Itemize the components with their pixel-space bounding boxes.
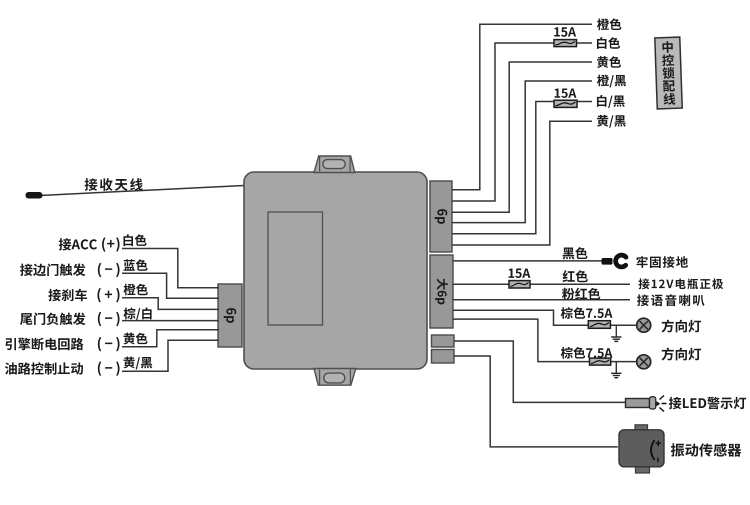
fuse 7.5A F4 <box>588 321 610 329</box>
connector 6p left <box>218 284 242 347</box>
label 大6p connector <box>435 279 448 305</box>
label 白色 <box>597 37 620 49</box>
label 方向灯 2 <box>662 347 702 360</box>
connector 6p right <box>430 181 452 252</box>
label 黄色 <box>597 56 621 68</box>
ground symbol row2 <box>611 362 621 378</box>
wire 白色 top <box>452 43 592 201</box>
wire color 黄/黑 <box>124 357 153 370</box>
turn lamp L2 <box>637 355 651 369</box>
ground symbol row1 <box>611 325 621 341</box>
fuse 7.5A F5 <box>590 358 611 365</box>
connector 大6p <box>430 255 453 328</box>
wire 黄色 top <box>452 62 592 212</box>
label sign (−) row4 <box>98 312 120 327</box>
label 15A fuse1 <box>554 27 576 37</box>
label sign (−) row6 <box>98 361 120 376</box>
wire 黄/黑 top <box>452 121 592 245</box>
wire color 黑色 <box>563 247 588 259</box>
label sign (−) row5 <box>98 337 120 352</box>
label 橙色 <box>597 18 621 30</box>
wire antenna lead <box>40 186 244 196</box>
label 橙/黑 <box>597 75 626 88</box>
label 接语音喇叭 <box>637 294 705 306</box>
label 黄/黑 <box>597 115 626 128</box>
wire color 蓝色 <box>123 259 147 271</box>
label 接收天线 (receiving antenna) <box>85 178 143 191</box>
control unit main body <box>244 172 427 369</box>
label 牢固接地 <box>637 256 688 268</box>
label char 中 <box>662 41 673 53</box>
wire 红色 +12V <box>453 283 630 285</box>
label 6p left connector <box>224 308 237 323</box>
label 接12V电瓶正极 <box>638 278 723 289</box>
wire color 粉红色 <box>562 288 600 300</box>
wire to vibration sensor <box>454 356 618 447</box>
label 振动传感器 <box>671 443 742 457</box>
wire 黄色 to pin5 <box>122 330 219 347</box>
label char 线 <box>663 93 675 105</box>
label 方向灯 1 <box>662 319 702 332</box>
fuse 15A F2 <box>554 100 577 107</box>
wire 棕色 turn lamp 1 <box>453 310 637 325</box>
wire color 橙色 <box>123 284 147 296</box>
wire color 黄色 <box>124 333 148 345</box>
wire color 棕/白 <box>124 308 152 321</box>
label char 锁 <box>662 67 674 79</box>
wire 黑色 ground <box>453 260 604 262</box>
wire color 棕色7.5A row1 <box>561 307 613 319</box>
wire 橙/黑 top <box>452 81 592 223</box>
label 接刹车 <box>48 289 87 302</box>
antenna tip <box>26 192 43 199</box>
label 15A fuse3 <box>509 269 531 279</box>
label 接ACC <box>59 238 97 250</box>
label 15A fuse2 <box>555 88 577 98</box>
fuse 15A F3 <box>509 281 530 288</box>
connector small A <box>432 335 455 347</box>
label char 配 <box>663 80 675 92</box>
wire to LED <box>454 341 626 402</box>
label 接边门触发 <box>20 264 85 277</box>
label char 控 <box>662 54 674 66</box>
label 6p right connector <box>435 209 448 224</box>
wire color 红色 <box>562 270 587 282</box>
wire color 棕色7.5A row2 <box>561 347 613 359</box>
wire 棕色 turn lamp 2 <box>453 319 637 362</box>
connector small B <box>432 350 455 364</box>
label sign (+) row1 <box>102 237 120 252</box>
mounting tab bottom <box>314 369 356 386</box>
LED indicator <box>626 396 667 412</box>
wire 棕/白 to pin4 <box>122 320 219 322</box>
turn lamp L1 <box>637 318 651 332</box>
central lock label box 中控锁配线 <box>655 37 682 109</box>
wire 白色 to pin1 <box>122 249 219 288</box>
fuse 15A F1 <box>554 40 577 47</box>
label 引擎断电回路 <box>5 338 83 351</box>
mounting tab top <box>314 156 355 173</box>
wire 橙色 top <box>452 24 592 190</box>
wire 白/黑 top <box>452 102 592 234</box>
wire color 白色 <box>123 234 146 246</box>
label 尾门负触发 <box>20 313 85 326</box>
wire 蓝色 to pin2 <box>122 273 219 298</box>
vibration sensor body <box>619 425 664 473</box>
wire 粉红色 speaker <box>453 299 630 301</box>
wire 黄/黑 to pin6 <box>122 340 219 371</box>
label sign (+) row3 <box>97 288 119 303</box>
label sign (−) row2 <box>98 263 120 278</box>
label 接LED警示灯 <box>669 397 746 409</box>
label 油路控制止动 <box>5 362 83 375</box>
wire 橙色 to pin3 <box>122 298 219 310</box>
ground clamp terminal <box>602 255 627 267</box>
inner panel rectangle <box>268 212 323 325</box>
label 白/黑 <box>597 95 625 108</box>
